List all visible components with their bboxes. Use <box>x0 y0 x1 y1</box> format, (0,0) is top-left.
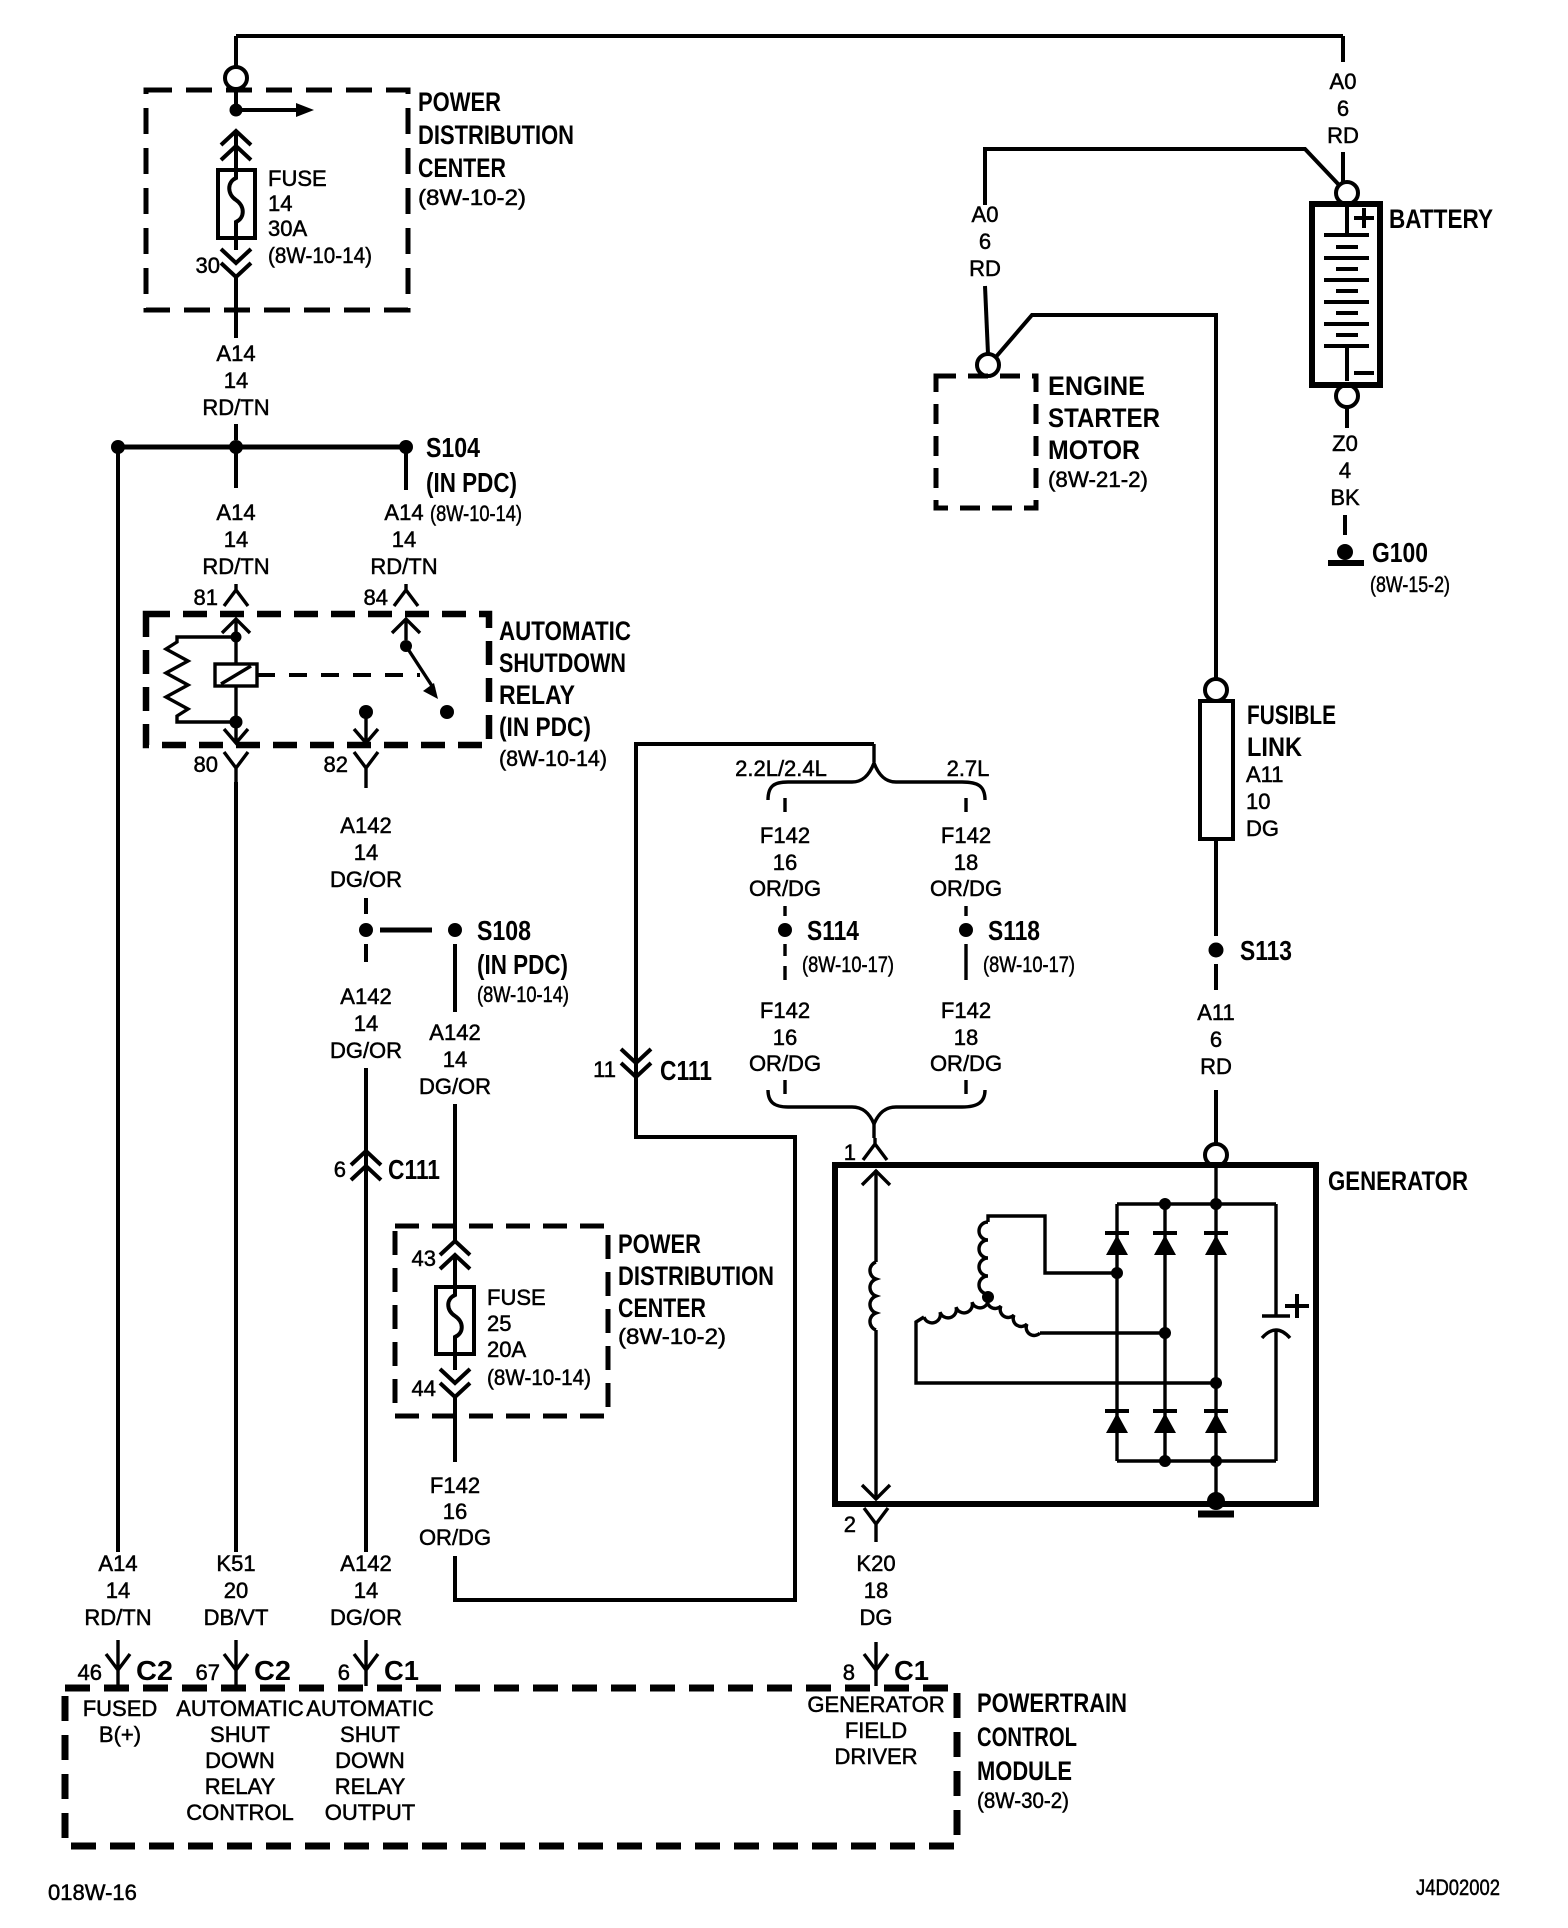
field winding pin 2 chevron <box>862 1485 890 1499</box>
node: top rail junction c3 <box>1210 1198 1222 1210</box>
brace: engine split top <box>768 744 985 800</box>
svg-text:RD/TN: RD/TN <box>202 395 269 420</box>
svg-text:F142: F142 <box>760 998 810 1023</box>
fuse F14 30A <box>218 170 255 238</box>
wire: center branch to relay pin 81 <box>234 453 238 488</box>
svg-text:(IN PDC): (IN PDC) <box>499 712 591 742</box>
rectifier column 3 (B+) <box>1214 1166 1217 1501</box>
wire: battery feed drop <box>1341 36 1345 62</box>
wire: 2.2L branch dashes <box>783 798 786 812</box>
svg-text:SHUTDOWN: SHUTDOWN <box>499 648 626 678</box>
relay switch pin 84 chevron <box>392 619 420 640</box>
battery positive terminal ring <box>1336 182 1358 204</box>
svg-text:A142: A142 <box>340 1551 391 1576</box>
svg-text:44: 44 <box>412 1376 436 1401</box>
capacitor (noise suppressor) <box>1262 1204 1290 1461</box>
svg-text:14: 14 <box>224 527 248 552</box>
wire: generator output to starter junction <box>995 315 1216 679</box>
svg-text:DG: DG <box>1246 816 1279 841</box>
field winding pin 1 chevron <box>862 1170 890 1262</box>
svg-text:82: 82 <box>324 752 348 777</box>
engine starter motor box <box>936 376 1036 508</box>
stator phase A leg <box>988 1216 1117 1273</box>
wire: arrow tap to other circuits <box>236 108 296 112</box>
svg-text:30A: 30A <box>268 216 307 241</box>
battery body <box>1312 204 1380 385</box>
node: splice S113 <box>1209 943 1224 958</box>
svg-text:RD: RD <box>969 256 1001 281</box>
stator coil A (vertical) <box>979 1222 988 1294</box>
svg-text:20A: 20A <box>487 1337 526 1362</box>
svg-text:C1: C1 <box>384 1655 419 1686</box>
node: switch contact dot <box>440 705 454 719</box>
node: splice dot S108 <box>448 923 462 937</box>
svg-text:RD/TN: RD/TN <box>84 1605 151 1630</box>
svg-text:6: 6 <box>1210 1027 1222 1052</box>
svg-text:G100: G100 <box>1372 537 1428 568</box>
svg-text:A142: A142 <box>340 984 391 1009</box>
switch arm with arrowhead <box>406 646 434 689</box>
svg-text:A0: A0 <box>972 202 999 227</box>
node: splice dot left <box>111 440 125 454</box>
generator B+ terminal ring <box>1205 1144 1227 1166</box>
svg-text:80: 80 <box>194 752 218 777</box>
svg-text:(IN PDC): (IN PDC) <box>477 949 568 980</box>
node: coil bottom junction <box>230 716 243 729</box>
svg-text:(8W-15-2): (8W-15-2) <box>1370 572 1450 597</box>
svg-text:OR/DG: OR/DG <box>749 876 821 901</box>
stator coil B (to left) <box>924 1297 988 1323</box>
svg-text:(8W-10-14): (8W-10-14) <box>499 746 607 771</box>
svg-text:1: 1 <box>844 1140 856 1165</box>
svg-text:DG: DG <box>860 1605 893 1630</box>
wire: left leg below S108 <box>364 944 368 962</box>
svg-text:2.2L/2.4L: 2.2L/2.4L <box>735 756 827 781</box>
battery + mark <box>1354 208 1374 228</box>
svg-text:CONTROL: CONTROL <box>186 1800 294 1825</box>
svg-text:AUTOMATIC: AUTOMATIC <box>499 616 631 646</box>
pin 82 exit arrow <box>354 712 378 743</box>
svg-text:OUTPUT: OUTPUT <box>325 1800 415 1825</box>
svg-text:RD: RD <box>1327 123 1359 148</box>
svg-text:A14: A14 <box>216 500 255 525</box>
svg-text:DOWN: DOWN <box>205 1748 275 1773</box>
svg-text:018W-16: 018W-16 <box>48 1880 137 1905</box>
svg-text:LINK: LINK <box>1247 732 1302 762</box>
svg-text:14: 14 <box>354 1578 378 1603</box>
svg-text:DG/OR: DG/OR <box>330 867 402 892</box>
svg-text:STARTER: STARTER <box>1048 403 1160 433</box>
svg-text:SHUT: SHUT <box>340 1722 400 1747</box>
svg-text:DG/OR: DG/OR <box>419 1074 491 1099</box>
svg-text:FUSE: FUSE <box>487 1285 546 1310</box>
svg-text:11: 11 <box>593 1057 616 1082</box>
svg-text:S114: S114 <box>807 915 859 946</box>
svg-text:2: 2 <box>844 1512 856 1537</box>
resistor (relay suppression) <box>166 637 236 722</box>
svg-text:6: 6 <box>334 1157 346 1182</box>
node: splice S114 <box>778 923 792 937</box>
svg-text:OR/DG: OR/DG <box>419 1525 491 1550</box>
node: bottom rail junction c3 <box>1210 1455 1222 1467</box>
wire: battery ground lead <box>1345 406 1349 428</box>
svg-text:DOWN: DOWN <box>335 1748 405 1773</box>
svg-text:67: 67 <box>196 1660 220 1685</box>
wire: 2.7L branch dashes <box>964 798 967 812</box>
svg-text:AUTOMATIC: AUTOMATIC <box>306 1696 434 1721</box>
svg-text:C2: C2 <box>254 1655 291 1686</box>
node: phase A tap <box>1111 1267 1123 1279</box>
svg-text:81: 81 <box>194 585 218 610</box>
svg-text:POWER: POWER <box>618 1229 701 1259</box>
node: switch pivot <box>400 640 412 652</box>
svg-text:(8W-10-17): (8W-10-17) <box>983 952 1075 977</box>
automatic shutdown relay box <box>146 614 489 745</box>
svg-text:18: 18 <box>954 850 978 875</box>
svg-text:OR/DG: OR/DG <box>930 1051 1002 1076</box>
svg-text:S113: S113 <box>1240 935 1292 966</box>
svg-text:RELAY: RELAY <box>335 1774 406 1799</box>
node: splice dot S104 <box>399 440 413 454</box>
svg-text:POWERTRAIN: POWERTRAIN <box>977 1688 1127 1718</box>
node: splice dot left of S108 <box>359 923 373 937</box>
svg-text:K51: K51 <box>216 1551 255 1576</box>
svg-text:RD/TN: RD/TN <box>370 554 437 579</box>
svg-text:(8W-10-14): (8W-10-14) <box>430 501 522 526</box>
relay coil <box>234 637 237 664</box>
svg-text:18: 18 <box>954 1025 978 1050</box>
wire: K51 from pin 80 down to PCM pin 67 <box>234 782 238 1552</box>
svg-text:BK: BK <box>1330 485 1360 510</box>
svg-text:MODULE: MODULE <box>977 1756 1072 1786</box>
wire: fuse 25 output loop to engine split <box>455 744 874 1600</box>
node: pin 82 contact dot <box>359 705 373 719</box>
wire: S108 tie bar <box>380 928 432 933</box>
svg-text:F142: F142 <box>430 1473 480 1498</box>
svg-text:(8W-21-2): (8W-21-2) <box>1048 467 1148 492</box>
rectifier top rail <box>1117 1202 1276 1205</box>
generator field coil <box>870 1262 876 1330</box>
wire: right branch to relay pin 84 <box>404 453 408 490</box>
linkage dashed from coil to switch <box>257 673 420 677</box>
stator coil C (to right) <box>987 1297 1040 1335</box>
svg-text:25: 25 <box>487 1311 511 1336</box>
svg-text:OR/DG: OR/DG <box>930 876 1002 901</box>
svg-text:(8W-10-2): (8W-10-2) <box>618 1324 726 1349</box>
power distribution center box (fuse 14) <box>146 90 408 310</box>
svg-text:(8W-10-14): (8W-10-14) <box>477 982 569 1007</box>
splice S104 bus <box>118 445 406 450</box>
svg-text:14: 14 <box>224 368 248 393</box>
svg-text:46: 46 <box>78 1660 102 1685</box>
svg-text:CONTROL: CONTROL <box>977 1722 1077 1752</box>
svg-text:DRIVER: DRIVER <box>834 1744 917 1769</box>
svg-text:RELAY: RELAY <box>205 1774 276 1799</box>
svg-text:C111: C111 <box>388 1154 440 1185</box>
svg-text:CENTER: CENTER <box>418 153 506 183</box>
svg-text:FIELD: FIELD <box>845 1718 907 1743</box>
svg-text:18: 18 <box>864 1578 888 1603</box>
svg-text:A14: A14 <box>216 341 255 366</box>
svg-text:A142: A142 <box>429 1020 480 1045</box>
diode D6 bottom <box>1204 1411 1228 1433</box>
svg-text:F142: F142 <box>760 823 810 848</box>
svg-text:MOTOR: MOTOR <box>1048 435 1140 465</box>
svg-text:F142: F142 <box>941 998 991 1023</box>
node: splice dot center <box>229 440 243 454</box>
svg-text:GENERATOR: GENERATOR <box>807 1692 944 1717</box>
svg-text:A14: A14 <box>384 500 423 525</box>
wire: right leg below S108 into PDC fuse 25 <box>453 944 457 1012</box>
svg-text:2.7L: 2.7L <box>947 756 990 781</box>
svg-text:6: 6 <box>338 1660 350 1685</box>
svg-text:C111: C111 <box>660 1055 712 1086</box>
svg-text:S118: S118 <box>988 915 1040 946</box>
powertrain control module box <box>65 1688 957 1846</box>
svg-text:POWER: POWER <box>418 87 501 117</box>
svg-text:14: 14 <box>268 191 292 216</box>
svg-text:(8W-10-14): (8W-10-14) <box>487 1365 591 1390</box>
node: stator star point <box>982 1291 994 1303</box>
stator phase C leg <box>1040 1331 1165 1334</box>
svg-text:RELAY: RELAY <box>499 680 575 710</box>
fusible link body <box>1200 701 1233 839</box>
svg-text:A142: A142 <box>340 813 391 838</box>
svg-text:A11: A11 <box>1246 762 1284 787</box>
stator phase B leg <box>916 1317 1217 1383</box>
svg-text:30: 30 <box>196 253 220 278</box>
svg-text:6: 6 <box>979 229 991 254</box>
svg-text:S108: S108 <box>477 915 531 946</box>
svg-text:16: 16 <box>773 1025 797 1050</box>
svg-text:K20: K20 <box>856 1551 895 1576</box>
svg-text:14: 14 <box>354 840 378 865</box>
battery plates <box>1324 207 1369 381</box>
svg-text:ENGINE: ENGINE <box>1048 371 1145 401</box>
svg-text:20: 20 <box>224 1578 248 1603</box>
wire: top horizontal bus from PDC to battery <box>236 36 1343 68</box>
svg-text:16: 16 <box>773 850 797 875</box>
capacitor + mark <box>1285 1294 1309 1318</box>
node: bottom rail junction c2 <box>1159 1455 1171 1467</box>
svg-text:14: 14 <box>443 1047 467 1072</box>
node: splice S118 <box>959 923 973 937</box>
connector ring at PDC feed <box>225 67 247 89</box>
diode D3 top <box>1204 1233 1228 1255</box>
svg-text:A14: A14 <box>98 1551 137 1576</box>
svg-text:(8W-10-2): (8W-10-2) <box>418 185 526 210</box>
svg-text:C2: C2 <box>136 1655 173 1686</box>
svg-text:B(+): B(+) <box>99 1722 141 1747</box>
svg-text:A0: A0 <box>1330 69 1357 94</box>
svg-text:14: 14 <box>354 1011 378 1036</box>
wire: field coil to pin 2 <box>874 1330 877 1498</box>
svg-text:6: 6 <box>1337 96 1349 121</box>
relay coil feed chevron pin 81 <box>222 619 250 636</box>
svg-text:43: 43 <box>412 1246 436 1271</box>
engine starter motor terminal ring <box>977 354 999 376</box>
power distribution center box (fuse 25) <box>395 1226 608 1416</box>
svg-text:14: 14 <box>106 1578 130 1603</box>
node: coil top junction <box>231 632 242 643</box>
svg-text:DISTRIBUTION: DISTRIBUTION <box>618 1261 774 1291</box>
diode D1 top <box>1105 1233 1129 1255</box>
svg-text:S104: S104 <box>426 432 480 463</box>
brace: engine split bottom <box>768 1090 985 1138</box>
svg-text:4: 4 <box>1339 458 1351 483</box>
svg-text:14: 14 <box>392 527 416 552</box>
connector pin chevrons into PDC <box>221 131 251 170</box>
svg-text:DB/VT: DB/VT <box>204 1605 269 1630</box>
svg-text:GENERATOR: GENERATOR <box>1328 1166 1468 1196</box>
svg-text:RD: RD <box>1200 1054 1232 1079</box>
svg-text:CENTER: CENTER <box>618 1293 706 1323</box>
svg-text:Z0: Z0 <box>1332 431 1358 456</box>
generator box <box>835 1165 1316 1504</box>
svg-text:(IN PDC): (IN PDC) <box>426 467 517 498</box>
svg-text:FUSED: FUSED <box>83 1696 158 1721</box>
node: phase B tap <box>1210 1377 1222 1389</box>
svg-text:A11: A11 <box>1197 1000 1235 1025</box>
svg-text:(8W-10-14): (8W-10-14) <box>268 243 372 268</box>
svg-text:DG/OR: DG/OR <box>330 1605 402 1630</box>
svg-text:(8W-10-17): (8W-10-17) <box>802 952 894 977</box>
rectifier column 2 <box>1163 1204 1166 1461</box>
svg-text:16: 16 <box>443 1499 467 1524</box>
wire: fusible link to generator <box>1214 839 1218 936</box>
diode D5 bottom <box>1153 1411 1177 1433</box>
svg-text:DISTRIBUTION: DISTRIBUTION <box>418 120 574 150</box>
rectifier column 1 <box>1115 1204 1118 1461</box>
battery negative terminal ring <box>1336 385 1358 407</box>
svg-text:10: 10 <box>1246 789 1270 814</box>
fusible link terminal ring <box>1205 679 1227 701</box>
wire: starter feed from battery <box>985 149 1340 205</box>
node: phase C tap <box>1159 1327 1171 1339</box>
rectifier bottom rail <box>1117 1459 1276 1462</box>
battery - mark <box>1354 371 1374 375</box>
wire: left branch down to PCM pin 46 <box>116 453 120 1552</box>
svg-text:C1: C1 <box>894 1655 929 1686</box>
diode D2 top <box>1153 1233 1177 1255</box>
node: top rail junction c2 <box>1159 1198 1171 1210</box>
svg-text:AUTOMATIC: AUTOMATIC <box>176 1696 304 1721</box>
ground G100 <box>1337 544 1353 560</box>
svg-text:8: 8 <box>843 1660 855 1685</box>
svg-text:J4D02002: J4D02002 <box>1416 1875 1500 1900</box>
svg-text:(8W-30-2): (8W-30-2) <box>977 1788 1069 1813</box>
svg-text:DG/OR: DG/OR <box>330 1038 402 1063</box>
wire: field driver to PCM pin 8 <box>874 1642 877 1668</box>
svg-text:84: 84 <box>364 585 388 610</box>
svg-text:SHUT: SHUT <box>210 1722 270 1747</box>
svg-text:BATTERY: BATTERY <box>1389 204 1493 234</box>
svg-text:RD/TN: RD/TN <box>202 554 269 579</box>
node: junction dot inside PDC <box>230 104 243 117</box>
svg-text:FUSIBLE: FUSIBLE <box>1247 700 1336 730</box>
generator internal ground <box>1207 1492 1225 1510</box>
pin 80 exit arrow <box>224 722 248 743</box>
svg-text:F142: F142 <box>941 823 991 848</box>
diode D4 bottom <box>1105 1411 1129 1433</box>
svg-text:OR/DG: OR/DG <box>749 1051 821 1076</box>
fuse F25 20A <box>436 1287 474 1354</box>
svg-text:FUSE: FUSE <box>268 166 327 191</box>
